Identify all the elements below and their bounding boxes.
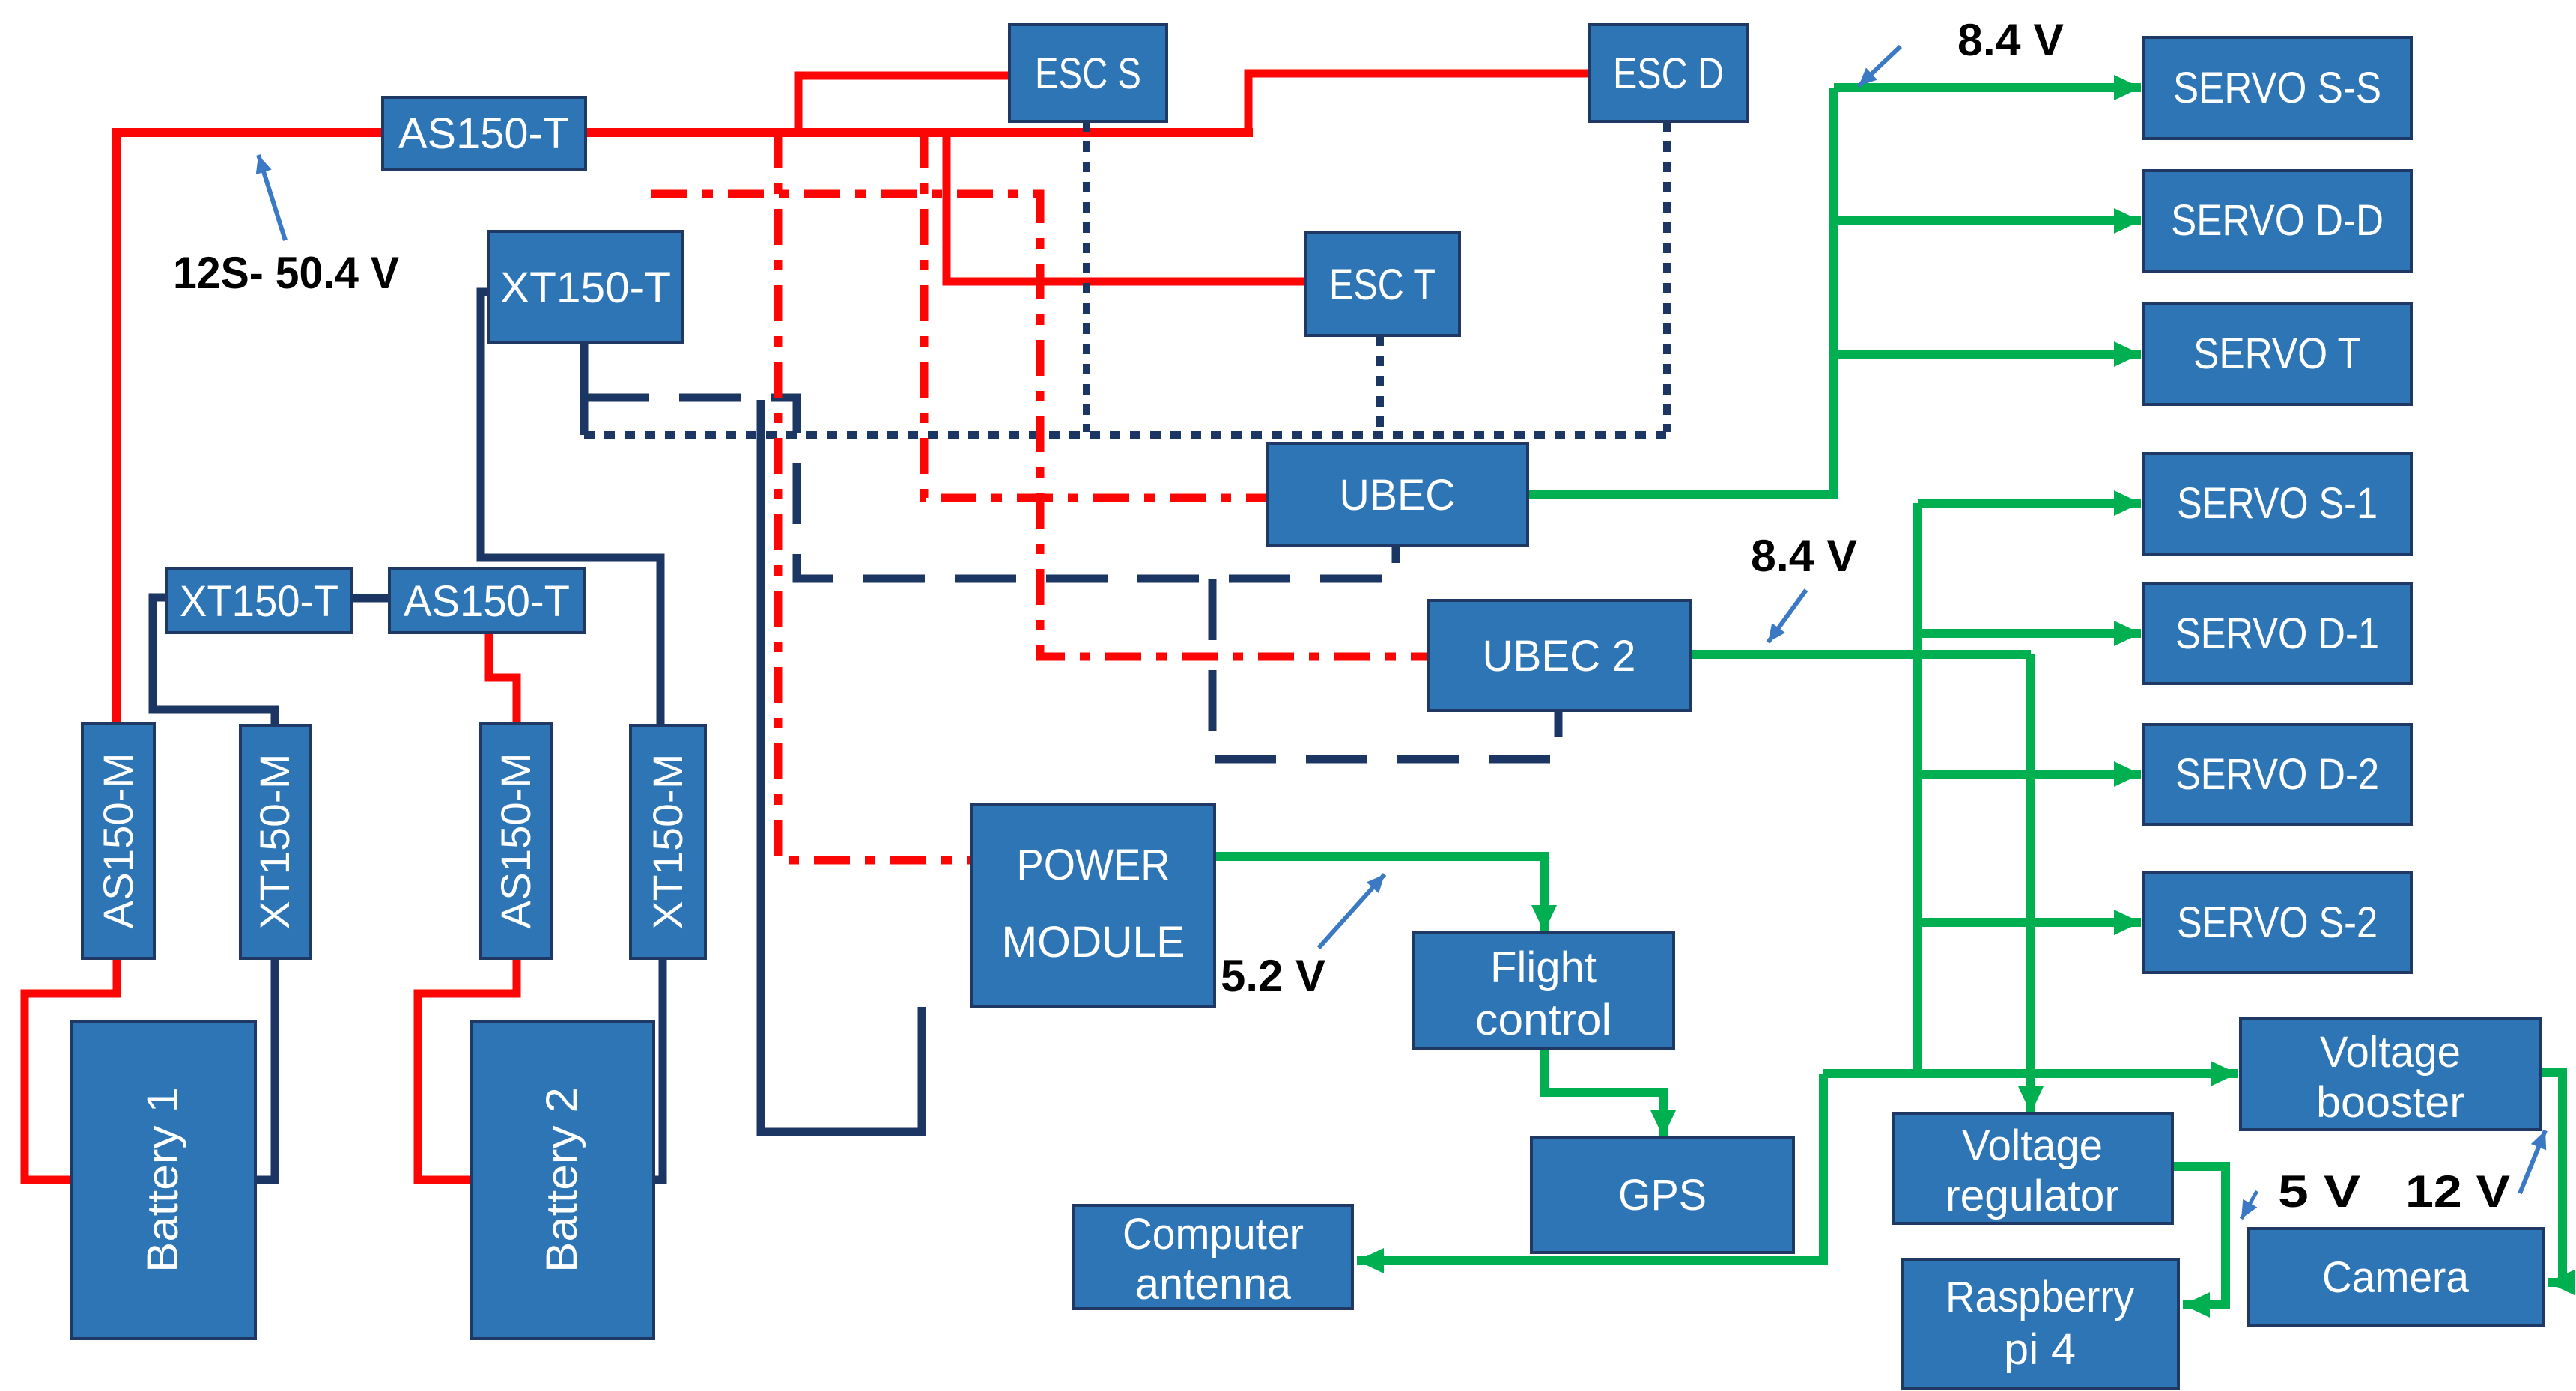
svg-text:SERVO D-D: SERVO D-D [2171, 196, 2384, 245]
wire red dash-dot to UBEC [924, 133, 1267, 498]
svg-text:XT150-M: XT150-M [251, 754, 298, 930]
UBEC 2 [1428, 600, 1691, 710]
wire green to Computer antenna [1357, 1074, 1823, 1261]
svg-text:antenna: antenna [1135, 1260, 1292, 1309]
wire green to SERVO S-2 [1918, 918, 2141, 927]
svg-text:Camera: Camera [2322, 1253, 2470, 1302]
ESC S [1009, 25, 1167, 121]
annotation arrow to main bus [258, 155, 285, 240]
SERVO S-1 [2144, 454, 2411, 554]
svg-text:booster: booster [2316, 1078, 2464, 1127]
wire navy XT150-M 1 to Battery 1 [255, 958, 275, 1180]
wire green to SERVO S-1 [1918, 499, 2141, 508]
svg-text:control: control [1475, 996, 1611, 1044]
svg-text:8.4 V: 8.4 V [1751, 531, 1857, 581]
svg-text:XT150-M: XT150-M [644, 754, 691, 930]
wire green UBEC output riser [1528, 88, 1834, 495]
wire red Battery1 + drop to AS150-M [112, 128, 121, 724]
Camera [2248, 1229, 2543, 1325]
SERVO S-2 [2144, 873, 2411, 973]
wire red ESC S feed [798, 76, 1009, 133]
svg-text:Voltage: Voltage [1962, 1121, 2103, 1170]
svg-text:regulator: regulator [1945, 1172, 2119, 1220]
ESC T [1306, 233, 1459, 335]
UBEC [1267, 444, 1528, 545]
svg-text:12S- 50.4 V: 12S- 50.4 V [173, 248, 399, 298]
svg-text:SERVO S-S: SERVO S-S [2173, 64, 2381, 112]
svg-text:Raspberry: Raspberry [1945, 1273, 2134, 1321]
ESC D [1590, 25, 1747, 121]
Battery 2 [472, 1021, 654, 1339]
SERVO D-1 [2144, 584, 2411, 684]
connector AS150-T small [389, 569, 584, 633]
svg-text:AS150-T: AS150-T [404, 577, 570, 626]
wire navy XT150-T to XT150-M 2 (battery 2 minus) [481, 292, 660, 725]
annotation arrow to pi wire [2241, 1191, 2257, 1219]
svg-text:SERVO T: SERVO T [2193, 329, 2361, 378]
wire navy dotted horizontal bus [584, 431, 1667, 439]
connector XT150-M 1 [240, 725, 310, 958]
wire navy XT150-T small to AS150-T small [352, 594, 389, 603]
wire green Voltage regulator to Raspberry pi 4 [2172, 1166, 2226, 1305]
wire navy XT150-T small to XT150-M 1 [153, 597, 275, 725]
wire green Voltage booster to Camera [2541, 1072, 2563, 1282]
svg-text:ESC T: ESC T [1329, 261, 1436, 309]
annotation arrow to UBEC 2 wire [1768, 590, 1806, 642]
svg-text:AS150-T: AS150-T [398, 109, 569, 158]
svg-text:8.4 V: 8.4 V [1957, 15, 2064, 65]
svg-text:Battery 1: Battery 1 [139, 1087, 187, 1273]
svg-text:SERVO S-2: SERVO S-2 [2177, 898, 2378, 947]
svg-text:UBEC 2: UBEC 2 [1483, 632, 1636, 681]
wire red ESC T feed [947, 133, 1306, 281]
wire navy dotted ESC D signal drop [1663, 121, 1671, 432]
wire green servo riser [1913, 503, 1922, 1078]
wire green drop to Voltage regulator [2026, 654, 2035, 1113]
connector AS150-T (top) [383, 97, 586, 169]
wire navy POWER MODULE negative [761, 400, 922, 1132]
svg-text:Voltage: Voltage [2320, 1028, 2461, 1077]
svg-text:ESC D: ESC D [1613, 49, 1724, 98]
connector AS150-M 2 [480, 724, 552, 958]
wire green to SERVO T [1834, 350, 2141, 359]
SERVO D-D [2144, 171, 2411, 271]
wire red AS150-M 1 to Battery 1 [25, 958, 117, 1180]
svg-text:GPS: GPS [1618, 1171, 1707, 1220]
POWER MODULE [972, 804, 1215, 1007]
Raspberry pi 4 [1902, 1259, 2178, 1388]
wire green UBEC 2 output [1691, 650, 2031, 659]
svg-text:5 V: 5 V [2278, 1166, 2360, 1217]
connector XT150-T small [166, 569, 352, 633]
GPS [1531, 1137, 1793, 1252]
svg-text:POWER: POWER [1017, 841, 1170, 889]
connector XT150-M 2 [631, 725, 705, 958]
wire red dash-dot to UBEC 2 [651, 194, 1428, 657]
svg-text:MODULE: MODULE [1002, 918, 1185, 967]
annotation arrow to power module wire [1319, 874, 1385, 948]
wire green to SERVO D-1 [1918, 629, 2141, 638]
svg-text:AS150-M: AS150-M [492, 753, 539, 929]
wire navy XT150-T bottom stub [580, 343, 589, 435]
wire green to SERVO S-S [1834, 83, 2141, 92]
connector XT150-T [489, 231, 683, 343]
wire navy dotted ESC T signal drop [1376, 335, 1384, 432]
wire red AS150-T to AS150-M 2 [489, 633, 517, 724]
svg-text:UBEC: UBEC [1340, 471, 1456, 520]
SERVO T [2144, 304, 2411, 404]
SERVO D-2 [2144, 725, 2411, 824]
wire green Flight control to GPS [1544, 1049, 1663, 1137]
svg-text:XT150-T: XT150-T [180, 577, 338, 626]
Computer antenna [1074, 1205, 1352, 1309]
wire green to SERVO D-D [1834, 216, 2141, 225]
annotation arrow to servo bus [1859, 46, 1901, 86]
annotation arrow to camera wire [2520, 1130, 2545, 1193]
Voltage regulator [1893, 1113, 2172, 1223]
wire red main bus (Battery + to AS150-T / ESC feeds) [117, 128, 1253, 137]
wire navy dashed to UBEC [588, 398, 1396, 579]
Voltage booster [2241, 1019, 2541, 1130]
svg-text:12 V: 12 V [2405, 1166, 2510, 1217]
wire green to SERVO D-2 [1918, 770, 2141, 779]
svg-text:SERVO D-2: SERVO D-2 [2175, 750, 2379, 799]
svg-text:SERVO S-1: SERVO S-1 [2177, 479, 2378, 528]
wire red ESC D feed [1248, 73, 1590, 133]
wire navy dotted ESC S signal drop [1083, 121, 1090, 432]
wire navy XT150-M 2 to Battery 2 [654, 958, 663, 1180]
wire red dash-dot to POWER MODULE [778, 133, 972, 860]
svg-text:AS150-M: AS150-M [94, 753, 142, 929]
wire red AS150-M 2 to Battery 2 [418, 958, 517, 1180]
Flight control [1413, 932, 1674, 1049]
svg-text:ESC S: ESC S [1035, 49, 1141, 98]
wire green to Voltage booster [1823, 1069, 2238, 1078]
svg-text:Battery 2: Battery 2 [538, 1087, 586, 1273]
svg-text:pi 4: pi 4 [2004, 1325, 2076, 1374]
wire green POWER MODULE to Flight control [1214, 856, 1544, 932]
svg-text:5.2 V: 5.2 V [1221, 951, 1325, 1001]
svg-text:XT150-T: XT150-T [500, 264, 671, 312]
svg-text:SERVO D-1: SERVO D-1 [2175, 609, 2379, 658]
svg-text:Computer: Computer [1123, 1210, 1304, 1258]
SERVO S-S [2144, 37, 2411, 139]
Battery 1 [71, 1021, 255, 1339]
svg-text:Flight: Flight [1490, 943, 1597, 992]
connector AS150-M 1 [82, 724, 154, 958]
wire navy dashed to UBEC 2 [1212, 579, 1558, 759]
